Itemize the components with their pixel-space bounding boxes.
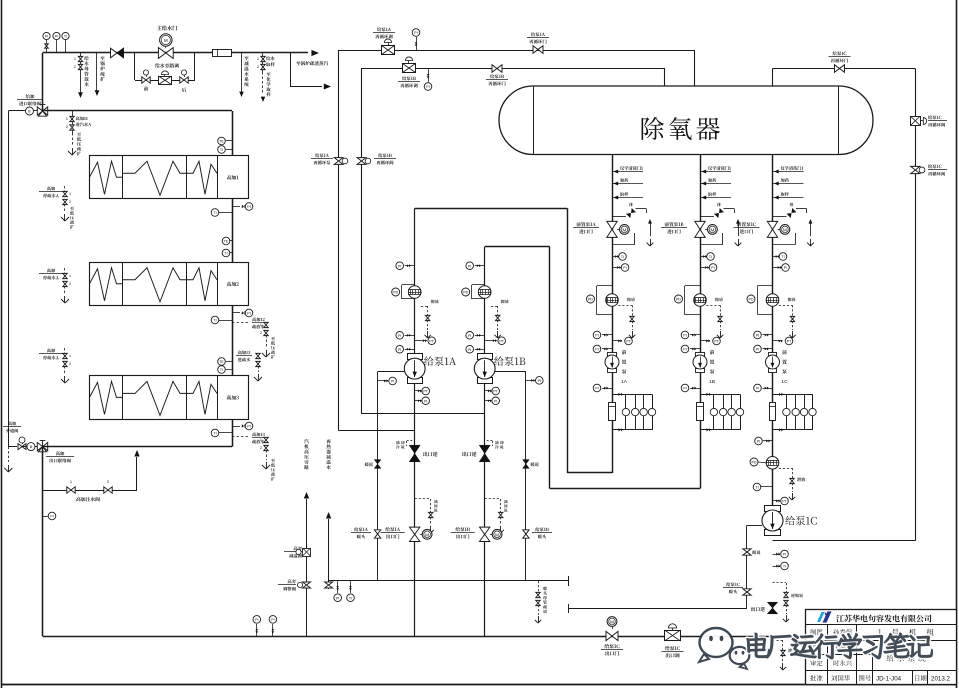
- svg-text:PI: PI: [50, 515, 53, 519]
- svg-text:2: 2: [74, 65, 76, 69]
- pipe main feedwater header y=53: [43, 52, 309, 54]
- svg-text:M: M: [783, 227, 787, 232]
- train 1C: [772, 154, 774, 510]
- drain below header junction 1C: [773, 640, 784, 642]
- instruments between heater1-2: [230, 240, 232, 242]
- instruments pressure cluster 1B: [475, 335, 485, 337]
- lube oil cooler 1C: [773, 394, 813, 396]
- instrument on outlet link line: [27, 443, 35, 451]
- instrument on bypass at inlet: [23, 110, 37, 112]
- HP heater box 高加1: [90, 156, 249, 199]
- instrument PT right 1C: [773, 340, 783, 342]
- suction filter 1A: [597, 285, 612, 287]
- motor valve 前置泵1B进口门: [665, 222, 684, 226]
- pipe recirc 1C join y=540.7: [773, 540, 916, 542]
- svg-text:PD: PD: [463, 291, 468, 295]
- motor valve discharge gate 1A: [410, 527, 420, 541]
- control valve 给泵1C出口调: [672, 628, 674, 630]
- valve 给泵1A再循环门: [531, 32, 545, 36]
- svg-text:PT: PT: [429, 339, 434, 343]
- svg-text:TI: TI: [709, 255, 712, 259]
- svg-text:TI: TI: [783, 565, 786, 569]
- relief branch 1C: [773, 216, 787, 218]
- instrument on left riser: [43, 516, 48, 518]
- instrument PI on warming riser 1B: [526, 380, 535, 382]
- svg-text:PI: PI: [595, 334, 598, 338]
- svg-text:2: 2: [260, 446, 262, 450]
- flow orifice: [213, 50, 232, 57]
- three-way valve 高加出口联络阀: [37, 442, 42, 450]
- svg-text:PI: PI: [468, 334, 471, 338]
- instrument PI below pump 1A: [602, 388, 612, 390]
- valve 给泵1B再循环门: [492, 65, 502, 73]
- svg-text:PI: PI: [784, 266, 787, 270]
- instruments PI pair 1A: [602, 334, 612, 336]
- svg-text:1: 1: [74, 57, 76, 61]
- valve 暖阀 1C: [743, 549, 751, 555]
- instrument PI below pump 1B: [690, 388, 700, 390]
- svg-text:TE: TE: [224, 240, 229, 244]
- title block row 校核: [810, 645, 822, 651]
- branch PI below heater2: [232, 312, 240, 314]
- pipe discharge header y=636: [43, 636, 773, 638]
- svg-text:M: M: [710, 227, 714, 232]
- svg-text:1B: 1B: [709, 379, 715, 385]
- svg-text:PI: PI: [756, 334, 759, 338]
- suction filter 1B: [472, 284, 485, 286]
- instruments TI PI 1C: [773, 256, 779, 258]
- motor valve 给泵1C出口门: [607, 617, 617, 627]
- feed pump 给泵1A: [408, 354, 423, 360]
- pipe left riser lower x=42.5: [42, 447, 44, 636]
- svg-text:PI: PI: [711, 266, 714, 270]
- pipe recirc 1A riser x=338.6: [338, 50, 340, 431]
- svg-text:2: 2: [69, 200, 71, 204]
- valves 高加13 疏放水: [232, 436, 248, 438]
- svg-text:PT: PT: [493, 390, 498, 394]
- booster pump 前置泵1C: [769, 353, 777, 357]
- pipe feed pump column 1A: [414, 208, 416, 636]
- valve 给泵1B再循环阀 on riser: [357, 158, 366, 165]
- svg-text:PI: PI: [414, 31, 417, 35]
- filling valves 高加注水阀: [43, 490, 138, 492]
- svg-text:TE: TE: [219, 140, 224, 144]
- title block table: [806, 610, 957, 685]
- svg-text:PI: PI: [494, 399, 497, 403]
- pipe heater outlet y=446.6: [43, 446, 233, 448]
- svg-text:TI: TI: [220, 148, 223, 152]
- warming header y=581: [329, 580, 568, 582]
- title block row 批准: [810, 675, 822, 681]
- valve 高旁减温阀: [294, 546, 302, 550]
- svg-text:M: M: [495, 532, 499, 537]
- instruments TI PI 1A: [612, 256, 618, 258]
- svg-text:TI: TI: [755, 486, 758, 490]
- svg-text:PI: PI: [398, 348, 401, 352]
- instruments on warming header: [337, 581, 339, 593]
- pipe recirc 1B y=68: [362, 68, 666, 70]
- suction pipe 1A: [567, 208, 569, 473]
- svg-text:PT: PT: [626, 340, 631, 344]
- valve 给泵1A暖头: [374, 530, 380, 538]
- feed pump 给泵1C: [765, 506, 781, 512]
- svg-text:PI: PI: [424, 399, 427, 403]
- warming riser 1B from pump: [495, 371, 526, 373]
- svg-text:PI: PI: [757, 440, 760, 444]
- drain branch 至锅炉疏水扩容器: [96, 53, 98, 86]
- feed pump 给泵1B: [478, 354, 493, 360]
- svg-text:PI: PI: [255, 618, 258, 622]
- svg-text:PI: PI: [756, 348, 759, 352]
- company logo 华电: [817, 612, 825, 622]
- valve black 暖说 1A: [374, 460, 381, 469]
- vent arrow 1B: [738, 222, 740, 236]
- check valve discharge 1B: [479, 445, 490, 462]
- valve 给泵1C暖头: [743, 589, 751, 595]
- relief branch 1B: [700, 216, 714, 218]
- drain cluster below check 1A: [415, 498, 431, 500]
- sample valves 给水取样: [262, 53, 264, 72]
- pipe recirc 1C right riser x=915.3: [915, 69, 917, 541]
- instrument PI below pump 1C: [763, 388, 773, 390]
- svg-text:PD: PD: [676, 298, 681, 302]
- branch 至锅炉减温水 with arrow: [290, 53, 292, 87]
- valves 高加12 疏放水: [232, 322, 248, 324]
- vent arrow 1A: [650, 222, 652, 236]
- instrument PI group on feedwater header: [46, 40, 48, 53]
- valves 高加13 进疏水: [238, 350, 250, 354]
- train 1B: [700, 154, 702, 489]
- lube oil cooler 1A: [612, 394, 652, 396]
- valve black 暖说 1B: [523, 460, 530, 469]
- svg-text:PI: PI: [247, 312, 250, 316]
- svg-text:PT: PT: [714, 340, 719, 344]
- control valve 给泵1B再循环调: [403, 64, 416, 73]
- svg-text:TI: TI: [220, 368, 223, 372]
- svg-text:PI: PI: [426, 85, 429, 89]
- watermark icon chat bubbles: [699, 628, 749, 669]
- svg-text:TI: TI: [213, 211, 216, 215]
- svg-text:PD: PD: [749, 298, 754, 302]
- company name 江苏华电句容发电有限公司: [836, 615, 931, 623]
- svg-text:PI: PI: [756, 387, 759, 391]
- instruments right of 1C discharge: [773, 554, 781, 556]
- valve 高旁调整阀: [288, 579, 296, 583]
- svg-text:1: 1: [260, 438, 262, 442]
- drain cluster right of 1C discharge: [773, 582, 787, 584]
- svg-text:JD-1-J04: JD-1-J04: [876, 676, 902, 683]
- valve 给泵1A再循环泵 on riser: [315, 153, 329, 157]
- svg-text:M: M: [164, 38, 168, 43]
- HP heater box 高加2: [90, 263, 249, 306]
- svg-text:1: 1: [69, 354, 71, 358]
- title block row 制图: [810, 629, 822, 635]
- svg-text:2013.2: 2013.2: [931, 676, 950, 683]
- drain branch 给水母管放水: [80, 53, 82, 88]
- pipe heater feed column x=232: [232, 111, 234, 447]
- watermark text 电厂运行学习笔记: [747, 633, 933, 659]
- branch PI below heater3: [232, 426, 240, 428]
- svg-text:M: M: [425, 532, 429, 537]
- title block row 审定: [810, 660, 822, 666]
- pipe 再热器减温水: [326, 439, 330, 443]
- bypass loop 给水旁路调: [134, 53, 136, 80]
- drawing border frame: [1, 0, 3, 688]
- svg-text:PD: PD: [393, 291, 398, 295]
- oil cooler drain labels 1A: [406, 441, 408, 446]
- instrument PI 1C mid: [763, 440, 773, 442]
- drain cluster below check 1B: [485, 498, 501, 500]
- svg-text:PI: PI: [55, 35, 58, 39]
- instruments PI pair 1C: [763, 334, 773, 336]
- instruments PI pair 1B: [690, 334, 700, 336]
- svg-text:PI: PI: [247, 425, 250, 429]
- warming riser 1A from pump: [378, 371, 405, 373]
- svg-text:2: 2: [257, 65, 259, 69]
- svg-text:PI: PI: [468, 264, 471, 268]
- check valve 出口逆 1C: [767, 602, 777, 614]
- svg-text:1C: 1C: [781, 379, 788, 385]
- valves 高加12 停疏水 beside heater2: [47, 268, 55, 272]
- instrument PI on warming riser 1A: [378, 380, 388, 382]
- instruments above heater1: [226, 140, 232, 142]
- svg-text:PI: PI: [623, 266, 626, 270]
- svg-text:1: 1: [69, 192, 71, 196]
- svg-text:TI: TI: [781, 255, 784, 259]
- svg-text:PI: PI: [271, 618, 274, 622]
- pipe recirc 1B riser x=361.5: [361, 68, 363, 414]
- svg-text:2: 2: [69, 282, 71, 286]
- svg-text:PT: PT: [782, 500, 787, 504]
- svg-text:PD: PD: [588, 298, 593, 302]
- svg-text:PI: PI: [391, 380, 394, 384]
- svg-text:PT: PT: [499, 339, 504, 343]
- branch 至减温水系统: [241, 53, 243, 88]
- svg-text:1: 1: [66, 117, 68, 121]
- heater 3 tube zigzag: [90, 381, 123, 414]
- svg-text:M: M: [610, 620, 614, 625]
- valve stop-check on header: [111, 48, 124, 58]
- svg-text:M: M: [622, 227, 626, 232]
- svg-text:PI: PI: [538, 379, 541, 383]
- instruments above heater3: [226, 361, 232, 363]
- svg-text:PI: PI: [683, 348, 686, 352]
- svg-text:PI: PI: [247, 205, 250, 209]
- instruments TI PI 1B: [700, 256, 706, 258]
- drain 泄放 right of filter 1C: [779, 468, 792, 470]
- pipe heater inlet header y=111: [43, 110, 233, 112]
- svg-text:PI: PI: [783, 553, 786, 557]
- control valve 给泵1A再循环调: [377, 27, 391, 31]
- motor valve 前置泵1A进口门: [576, 222, 595, 226]
- pipe left main riser x=42.5: [42, 53, 44, 111]
- booster pump 前置泵1B: [696, 353, 705, 357]
- deaerator vessel 除氧器: [499, 86, 873, 155]
- svg-text:PI: PI: [468, 348, 471, 352]
- svg-text:PI: PI: [683, 334, 686, 338]
- branch PI below heater1: [232, 206, 240, 208]
- svg-text:1: 1: [69, 274, 71, 278]
- svg-text:2: 2: [69, 362, 71, 366]
- oil cooler drain labels 1B: [492, 441, 494, 446]
- svg-text:TI: TI: [213, 432, 216, 436]
- svg-text:1A: 1A: [621, 379, 628, 385]
- svg-text:TI: TI: [213, 319, 216, 323]
- svg-text:1: 1: [260, 323, 262, 327]
- three-way valve 给加进口联络阀: [26, 94, 35, 98]
- valves 高加13 停疏水 beside heater3: [47, 348, 55, 352]
- relief branch 1A: [612, 216, 626, 218]
- booster pump 前置泵1A: [608, 353, 617, 357]
- svg-text:2: 2: [66, 125, 68, 129]
- filter 1C: [766, 457, 779, 470]
- svg-text:PI: PI: [595, 387, 598, 391]
- instruments discharge 1B: [485, 390, 491, 392]
- motor valve 主给水门: [157, 26, 177, 31]
- bypass line left x=8.4: [8, 110, 23, 112]
- drain arrow below bypass: [8, 447, 10, 462]
- valves 高加11进汽水: [72, 111, 74, 133]
- motor valve discharge gate 1B: [480, 527, 490, 541]
- svg-text:TE: TE: [219, 360, 224, 364]
- warming pipe 1C: [747, 525, 762, 527]
- heater 1 tube zigzag: [90, 161, 123, 194]
- valve 给泵1C再循环门 top: [835, 65, 845, 73]
- train 1A: [612, 154, 614, 473]
- valve 给泵1C再循环阀: [911, 166, 920, 173]
- svg-text:TI: TI: [621, 255, 624, 259]
- HP heater box 高加3: [90, 376, 249, 420]
- pipe feed pump column 1B: [484, 247, 486, 636]
- vent arrow 1C: [810, 222, 812, 236]
- suction filter 1B: [685, 285, 700, 287]
- instrument PT right 1B: [700, 340, 710, 342]
- heater 2 tube zigzag: [90, 268, 123, 301]
- svg-text:PD: PD: [752, 461, 757, 465]
- instruments PI on header: [256, 624, 258, 636]
- suction pipe 1B: [549, 247, 551, 489]
- svg-text:2: 2: [260, 331, 262, 335]
- pipe recirc 1C top y=68.5: [772, 69, 774, 87]
- arrows chemical-clean/dosing/sample 1B: [700, 171, 731, 173]
- arrows chemical-clean/dosing/sample 1C: [773, 171, 804, 173]
- arrows chemical-clean/dosing/sample 1A: [612, 171, 643, 173]
- warming return line y=608.5: [568, 608, 747, 610]
- instrument PI suction 1A: [405, 265, 415, 267]
- svg-text:PT: PT: [787, 340, 792, 344]
- suction filter 1A: [402, 284, 415, 286]
- check valve discharge 1A: [409, 445, 420, 462]
- svg-text:PI: PI: [398, 264, 401, 268]
- drain 暖头母管疏放: [538, 581, 540, 592]
- valve 给泵1B暖头: [523, 530, 529, 538]
- lube oil cooler 1B: [700, 394, 740, 396]
- instruments pressure cluster 1A: [405, 335, 415, 337]
- instrument PI on recirc 1B: [428, 68, 430, 82]
- instruments discharge 1A: [415, 390, 421, 392]
- instrument PI on recirc 1A: [416, 37, 418, 50]
- instrument PI suction 1B: [475, 265, 485, 267]
- svg-text:PI: PI: [45, 35, 48, 39]
- svg-text:TI: TI: [349, 596, 352, 600]
- bypass valve 高加旁通阀: [8, 421, 16, 425]
- pipe 汽机高压旁路: [304, 439, 308, 443]
- svg-text:PI: PI: [336, 596, 339, 600]
- pipe recirc 1A y=50: [339, 50, 694, 52]
- svg-text:TI: TI: [64, 35, 67, 39]
- svg-text:PI: PI: [595, 348, 598, 352]
- instruments TI PT above pump 1C: [761, 486, 773, 488]
- control valve 给泵1C再循环调: [911, 117, 921, 126]
- instrument PT right 1A: [612, 340, 622, 342]
- svg-text:1: 1: [257, 57, 259, 61]
- motor valve 前置泵1C进口门: [737, 222, 756, 226]
- svg-text:PI: PI: [398, 334, 401, 338]
- suction filter 1C: [758, 285, 773, 287]
- svg-text:PT: PT: [423, 390, 428, 394]
- svg-text:PI: PI: [683, 387, 686, 391]
- instrument TI below heater1: [219, 212, 232, 214]
- valves 高加11 进疏水 beside heater1: [47, 186, 55, 190]
- svg-text:TI: TI: [224, 252, 227, 256]
